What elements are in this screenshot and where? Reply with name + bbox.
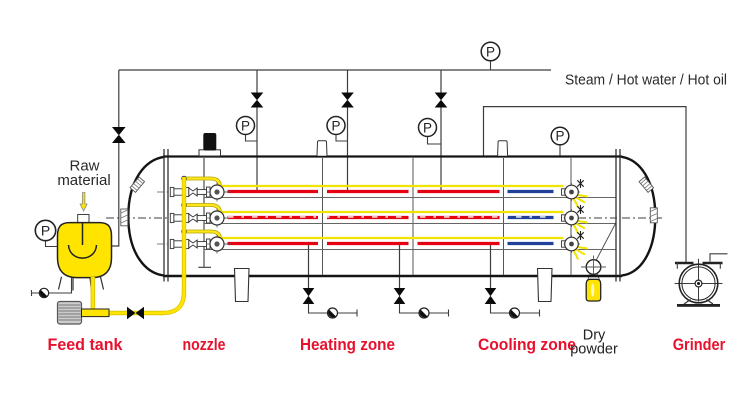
label: Dry powder bbox=[570, 328, 618, 358]
manway nozzle left (hatched) bbox=[121, 209, 128, 226]
grinder mounting bars bbox=[675, 263, 723, 269]
grinder vent pipe bbox=[710, 254, 728, 262]
pressure gauge P6 (feed tank) bbox=[35, 220, 57, 246]
vessel support leg right bbox=[538, 269, 553, 302]
nozzle lance assembly row 3 bbox=[157, 235, 231, 254]
steam supply header pipe bbox=[119, 69, 551, 71]
heating element red bars row 2 bbox=[228, 216, 500, 219]
agitator motor on vessel top bbox=[199, 133, 221, 156]
interior tube sheet with foot bbox=[198, 158, 211, 267]
steam trap T1 bbox=[328, 308, 338, 318]
svg-text:Grinder: Grinder bbox=[673, 336, 726, 354]
manway nozzle right (hatched) bbox=[650, 208, 657, 223]
condensate valve V5 bbox=[303, 288, 315, 304]
svg-text:P: P bbox=[555, 129, 564, 144]
spray feed yellow pipe row 2 bbox=[184, 205, 220, 212]
interior zone partition line 1 bbox=[322, 158, 324, 275]
dry powder bottle bbox=[586, 279, 601, 301]
label: Raw material bbox=[57, 158, 110, 190]
label: Grinder bbox=[673, 336, 726, 354]
steam drop pipe 3 bbox=[440, 70, 442, 190]
feed tank vessel bbox=[58, 223, 112, 278]
heating element red bars row 1 bbox=[228, 190, 500, 193]
pressure gauge P5 (top) bbox=[481, 42, 500, 70]
nozzle lance assembly row 1 bbox=[157, 183, 231, 202]
powder chute diagonal bbox=[596, 223, 617, 262]
svg-text:Feed tank: Feed tank bbox=[48, 336, 124, 354]
feed tank agitator bbox=[69, 223, 97, 258]
interior zone partition line 3 bbox=[503, 158, 505, 275]
feed tank drain line bbox=[32, 278, 72, 297]
feed pipe tee dot row 3 bbox=[182, 229, 187, 234]
feed pipe tee dot row 1 bbox=[182, 176, 187, 181]
valve V2 bbox=[341, 93, 354, 108]
interior shelf line 1 bbox=[204, 197, 616, 199]
vessel top nozzle stub 2 bbox=[498, 141, 508, 156]
drain standpipe 2 bbox=[399, 244, 401, 289]
centerline white dashes over row 2 bbox=[228, 216, 553, 218]
spray feed yellow pipe row 1 bbox=[184, 179, 220, 187]
grinder body circles bbox=[679, 264, 718, 303]
pressure gauge P4 (on vessel top) bbox=[551, 127, 569, 156]
svg-text:Steam / Hot water / Hot oil: Steam / Hot water / Hot oil bbox=[565, 72, 727, 89]
condensate valve V6 bbox=[394, 288, 406, 304]
interior zone partition line 2 bbox=[412, 158, 414, 275]
heating element red bars row 3 bbox=[228, 242, 500, 245]
label: Cooling zone bbox=[478, 336, 576, 354]
feed tank neck bbox=[78, 215, 89, 224]
spray header yellow line row 2 bbox=[220, 211, 564, 213]
axis centerline right bbox=[578, 217, 664, 219]
svg-text:material: material bbox=[57, 172, 110, 189]
grinder crosshair bbox=[675, 259, 723, 302]
vessel flange left (double lines) bbox=[164, 149, 168, 282]
grinder base legs bbox=[684, 300, 713, 305]
pressure gauge P1 bbox=[237, 117, 258, 142]
feed tank legs bbox=[59, 277, 104, 291]
drain standpipe 1 bbox=[308, 244, 310, 289]
dryer vessel left end cap bbox=[128, 157, 164, 276]
condensate line 3 bbox=[491, 304, 540, 317]
condensate valve V7 bbox=[485, 288, 497, 304]
pressure gauge P3 bbox=[419, 119, 442, 145]
nozzle lance assembly row 2 bbox=[170, 209, 228, 228]
vapour pipe to grinder bbox=[484, 107, 687, 262]
feed pump motor bbox=[58, 302, 82, 325]
cooling element blue bar row 3 bbox=[508, 242, 554, 245]
valve V4 (feed line) bbox=[127, 307, 144, 319]
steam trap T3 bbox=[510, 308, 520, 318]
valve V3 bbox=[435, 93, 448, 108]
spray feed yellow pipe row 3 bbox=[184, 232, 220, 239]
condensate line 1 bbox=[309, 304, 358, 317]
dryer vessel right end cap bbox=[622, 157, 656, 276]
cooling element blue bar row 1 bbox=[508, 190, 554, 193]
lifting lug left cap (hatched) bbox=[130, 177, 145, 192]
raw material inlet arrow bbox=[80, 193, 87, 212]
interior shelf line 3 bbox=[204, 249, 616, 251]
feed pump discharge pipe bbox=[82, 309, 110, 317]
grinder base plate bbox=[677, 304, 720, 307]
pressure gauge P2 bbox=[327, 117, 348, 142]
feed tank branch pipe bbox=[112, 70, 119, 246]
discharge spray head row 1 bbox=[562, 179, 588, 208]
svg-text:nozzle: nozzle bbox=[183, 336, 226, 354]
powder discharge rotary valve bbox=[581, 256, 606, 275]
svg-text:P: P bbox=[423, 120, 432, 135]
feed pipe tee dot row 2 bbox=[182, 203, 187, 208]
steam trap T2 bbox=[419, 308, 429, 318]
dryer vessel shell top line bbox=[163, 155, 622, 157]
label: Heating zone bbox=[300, 336, 395, 354]
svg-text:P: P bbox=[41, 223, 50, 239]
steam drop pipe 1 bbox=[256, 70, 258, 190]
label: Steam / Hot water / Hot oil bbox=[565, 72, 727, 89]
valve V1 bbox=[251, 93, 264, 108]
drain standpipe 3 bbox=[490, 244, 492, 289]
discharge spray head row 3 bbox=[562, 231, 588, 260]
steam drop pipe 2 bbox=[347, 70, 349, 190]
dryer vessel shell bottom line bbox=[163, 275, 622, 278]
spray header yellow line row 1 bbox=[220, 185, 564, 187]
vessel flange right (double lines) bbox=[616, 149, 620, 282]
svg-text:Cooling zone: Cooling zone bbox=[478, 336, 576, 354]
discharge funnel bbox=[588, 274, 600, 280]
svg-text:powder: powder bbox=[570, 342, 618, 358]
condensate line 2 bbox=[400, 304, 449, 317]
lifting lug right cap (hatched) bbox=[639, 177, 654, 192]
feed yellow pipe from tank to dryer bbox=[93, 177, 184, 313]
valve V0 (feed tank branch) bbox=[112, 127, 126, 143]
vessel top nozzle stub 1 bbox=[317, 141, 327, 156]
svg-text:P: P bbox=[241, 118, 250, 133]
axis centerline left bbox=[106, 217, 231, 219]
svg-text:P: P bbox=[486, 44, 495, 59]
steam trap T0 (feed tank drain) bbox=[39, 288, 48, 297]
discharge spray head row 2 bbox=[562, 205, 588, 234]
label: nozzle bbox=[183, 336, 226, 354]
svg-text:Heating zone: Heating zone bbox=[300, 336, 395, 354]
cooling element blue bar row 2 bbox=[508, 216, 554, 219]
svg-text:P: P bbox=[331, 118, 340, 133]
spray header yellow line row 3 bbox=[220, 237, 564, 239]
label: Feed tank bbox=[48, 336, 124, 354]
interior zone partition line 4 bbox=[570, 158, 572, 275]
interior shelf line 2 bbox=[204, 223, 616, 225]
vessel support leg left bbox=[235, 269, 250, 302]
